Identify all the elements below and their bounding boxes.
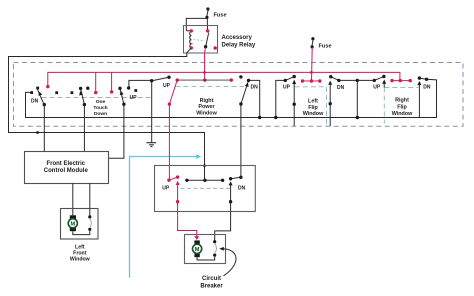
svg-text:Flip: Flip bbox=[308, 105, 318, 111]
svg-text:UP: UP bbox=[373, 85, 381, 91]
svg-text:DN: DN bbox=[31, 98, 39, 104]
svg-text:UP: UP bbox=[162, 185, 170, 191]
svg-text:Delay Relay: Delay Relay bbox=[222, 42, 256, 48]
svg-text:Right: Right bbox=[200, 98, 214, 104]
svg-text:Window: Window bbox=[70, 257, 91, 263]
svg-text:Fuse: Fuse bbox=[319, 43, 332, 49]
svg-text:Window: Window bbox=[392, 111, 413, 117]
svg-text:Touch: Touch bbox=[93, 105, 107, 111]
svg-text:Flip: Flip bbox=[397, 104, 407, 110]
svg-text:One: One bbox=[96, 99, 106, 105]
svg-text:Right: Right bbox=[395, 98, 409, 104]
svg-text:DN: DN bbox=[337, 85, 345, 91]
svg-text:UP: UP bbox=[163, 83, 171, 89]
svg-text:Accessory: Accessory bbox=[222, 35, 253, 41]
svg-text:Fuse: Fuse bbox=[214, 12, 227, 18]
svg-text:Control Module: Control Module bbox=[44, 168, 89, 174]
svg-text:Front: Front bbox=[73, 251, 87, 257]
svg-text:DN: DN bbox=[251, 85, 259, 91]
svg-text:Window: Window bbox=[196, 111, 217, 117]
svg-text:Down: Down bbox=[94, 111, 107, 117]
svg-text:UP: UP bbox=[283, 85, 291, 91]
svg-text:Left: Left bbox=[308, 99, 318, 105]
svg-text:M: M bbox=[195, 247, 200, 253]
svg-text:UP: UP bbox=[130, 95, 138, 101]
svg-text:DN: DN bbox=[423, 84, 431, 90]
svg-text:Window: Window bbox=[303, 111, 324, 117]
svg-text:Breaker: Breaker bbox=[200, 284, 223, 290]
svg-text:Power: Power bbox=[198, 104, 215, 110]
svg-text:M: M bbox=[70, 222, 75, 228]
svg-text:DN: DN bbox=[238, 185, 246, 191]
svg-text:Front Electric: Front Electric bbox=[46, 161, 85, 167]
svg-text:Circuit: Circuit bbox=[202, 276, 221, 282]
